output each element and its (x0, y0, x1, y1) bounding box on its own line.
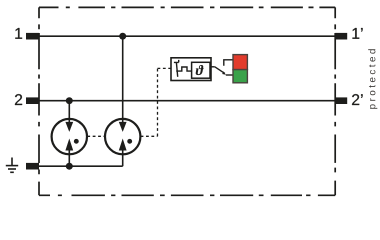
mechanical linkage (dashed) into disconnector box (158, 67, 171, 69)
terminal earth (26, 163, 39, 170)
terminal 1' (335, 33, 347, 40)
terminal 1 (26, 33, 39, 40)
label terminal 2 (15, 94, 22, 105)
changeover switch lever (215, 67, 225, 74)
spark gap F1 (gas discharge tube, line 2 to earth) (52, 119, 87, 154)
label terminal 1 (15, 28, 22, 39)
disconnector meander link (176, 67, 192, 71)
node: junction of F2 with line 1 (119, 33, 126, 40)
wire: line 1 from terminal 1 to terminal 1' (39, 35, 336, 37)
thermal disconnector box (171, 58, 211, 81)
changeover switch lever arrowhead (222, 72, 226, 75)
wire: line 2 from terminal 2 to terminal 2' (39, 100, 336, 102)
label protected (right margin, rotated) (368, 49, 377, 109)
wire: drop from line 1 into spark gap F2 (122, 36, 124, 130)
thermal sensor box (192, 62, 210, 78)
wire: ground bus from earth terminal to spark gaps (39, 165, 123, 167)
terminal 2 (26, 97, 39, 104)
device enclosure (dash-dot boundary) right edge (334, 7, 336, 195)
disconnector switch blade (176, 63, 177, 77)
mechanical linkage (dashed) riser (157, 68, 159, 136)
label terminal 2' (352, 94, 363, 105)
device enclosure (dash-dot boundary) left edge (38, 7, 40, 195)
node: junction of F1 with ground bus (66, 163, 73, 170)
spark gap F2 (gas discharge tube, line 1 to earth) (105, 119, 140, 154)
label terminal 1' (352, 28, 362, 39)
wire: spark gap F2 bottom lead to ground bus (122, 144, 124, 166)
node: junction of F1 with line 2 (66, 97, 73, 104)
mechanical linkage (dashed) F1 to F2 (87, 135, 104, 137)
indicator window red (fault) (233, 55, 247, 70)
mechanical linkage (dashed) F2 to thermal disconnector (141, 135, 158, 137)
wire: contact to green indicator (226, 74, 234, 76)
device enclosure (dash-dot boundary) top edge (39, 6, 335, 8)
disconnector switch top hook (174, 60, 179, 63)
terminal 2' (335, 97, 347, 104)
ground symbol (6, 158, 18, 173)
wire: drop from line 2 into spark gap F1 (68, 101, 70, 130)
device enclosure (dash-dot boundary) bottom edge (39, 194, 335, 196)
wire: spark gap F1 bottom lead to ground bus (68, 144, 70, 166)
wire: contact to red indicator (224, 60, 234, 66)
indicator window green (ok) (233, 70, 247, 83)
wire: disconnector output stub (211, 66, 215, 68)
theta label (196, 65, 204, 75)
